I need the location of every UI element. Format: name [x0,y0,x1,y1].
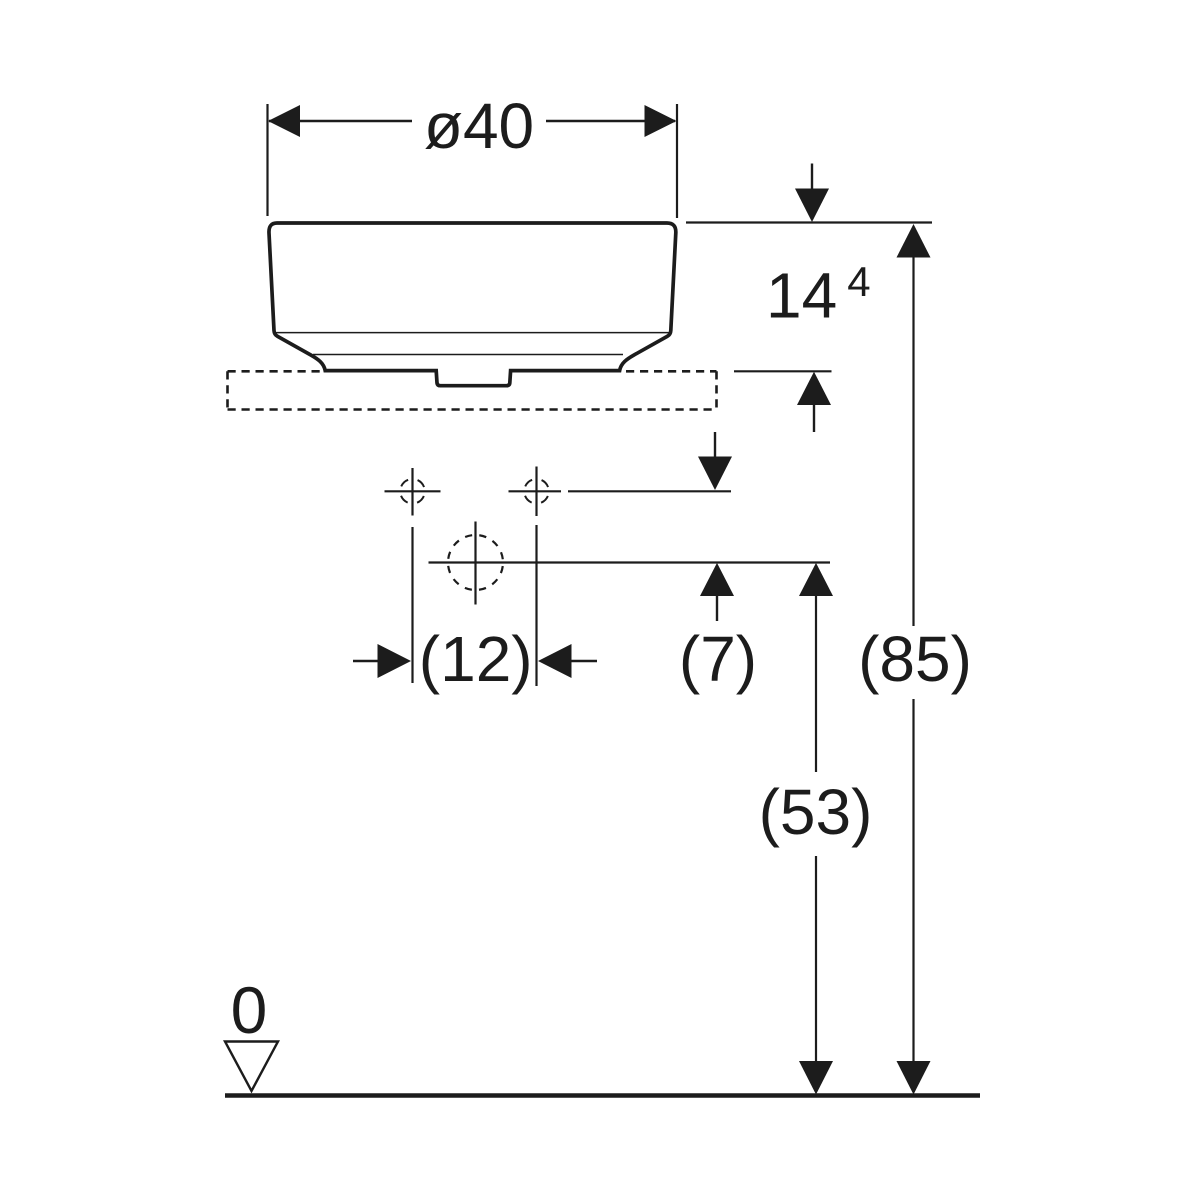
dim 7 arrow down head [698,457,732,491]
countertop dashed top edge left [228,370,321,373]
dim 85 arrow up head [897,224,931,258]
dim 12 left arrow head [378,644,412,678]
svg-text:ø40: ø40 [424,90,534,162]
dim 14 arrow down head [795,189,829,223]
dim 53 arrow down head [799,1061,833,1095]
basin inner foot line [313,354,623,356]
svg-text:(7): (7) [679,623,757,695]
tap hole 1 dashed circle [400,479,425,504]
countertop dashed bottom edge [228,408,717,411]
extension line right of dim ø40 [676,104,678,218]
dim 53 line upper [815,594,817,772]
tap hole 2 horizontal axis [509,490,562,492]
faucet hole vertical axis [474,522,476,605]
extension line left of dim ø40 [266,104,268,216]
faucet hole centre line [429,561,831,563]
tap hole 2 dashed circle [524,479,549,504]
dim 53 line lower [815,856,817,1062]
tap hole 1 horizontal axis [385,490,441,492]
dim 85 arrow down head [897,1061,931,1095]
dim 85 line upper [912,256,914,626]
dim 7 arrow up tail [716,594,718,621]
svg-text:0: 0 [231,973,268,1047]
svg-text:144: 144 [766,258,871,332]
dimension line ø40 right segment [546,120,675,122]
basin outline [269,223,676,386]
arrowhead ø40 left [268,105,300,137]
countertop dashed right edge [715,371,718,409]
dim 12 extension line left [411,527,413,683]
dim 12 right arrow head [538,644,572,678]
basin inner rim line [276,332,669,334]
tap hole 1 vertical axis [411,468,413,516]
extension line basin top level right [686,221,932,223]
dim 12 extension line right [535,525,537,686]
countertop dashed top edge right [626,370,717,373]
svg-text:(12): (12) [419,623,533,695]
dim 12 left arrow tail [353,660,383,662]
faucet hole dashed circle [448,535,503,590]
svg-text:(53): (53) [759,776,873,848]
dim 85 line lower [912,699,914,1062]
floor line [225,1093,980,1098]
dim 14 arrow down tail [811,164,813,193]
dim 12 right arrow tail [567,660,597,662]
dim 14 arrow up tail [813,403,815,432]
holes centre line [568,490,731,492]
datum zero triangle [225,1042,278,1092]
dimension line ø40 left segment [269,120,412,122]
dim 53 arrow up head [799,563,833,596]
tap hole 2 vertical axis [535,467,537,517]
dim 7 arrow down tail [714,432,716,460]
countertop dashed left edge [226,371,229,409]
extension line countertop level right [734,370,832,372]
arrowhead ø40 right [645,105,677,137]
dim 14 arrow up head [797,372,831,405]
dim 7 arrow up head [700,563,734,596]
svg-text:(85): (85) [858,623,972,695]
